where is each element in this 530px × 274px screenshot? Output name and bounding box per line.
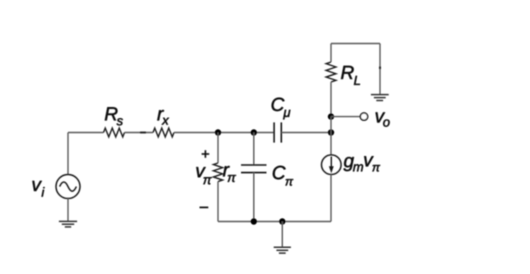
wire: node vo to main wire node	[330, 117, 332, 133]
label rx	[157, 110, 169, 125]
wire: RL bottom lead to node vo	[330, 82, 332, 117]
wire: bottom horizontal	[218, 221, 331, 223]
label vpi	[196, 167, 211, 184]
wire: RL top lead	[330, 44, 332, 63]
wire: right vertical to ground	[379, 44, 381, 95]
current source gm vpi circle	[322, 155, 342, 175]
wire: main wire node to current source	[330, 133, 332, 156]
label gm vpi	[344, 156, 381, 171]
minus sign	[200, 206, 209, 208]
capacitor Cpi plate bottom	[241, 172, 267, 174]
wire: between Rs and rx	[125, 132, 154, 134]
wire: rpi to bottom wire	[217, 182, 219, 222]
node: Cpi bottom junction	[251, 218, 257, 224]
node C2 on main wire	[328, 129, 334, 135]
wire: source to ground left	[67, 199, 69, 222]
resistor rpi	[213, 163, 222, 182]
wire: top horizontal	[331, 43, 380, 45]
source vi sine symbol	[60, 182, 77, 191]
wire: current source to bottom wire	[330, 175, 332, 222]
label Cpi	[273, 166, 293, 186]
capacitor Cpi plate top	[241, 164, 267, 166]
label Cmu	[272, 98, 291, 120]
ground (bottom middle)	[274, 247, 291, 253]
wire: vo stub	[331, 116, 360, 118]
wire: node C down to Cpi	[253, 133, 255, 166]
ground (left, below vi)	[59, 221, 77, 227]
label Rs	[105, 107, 123, 125]
wire: Cpi to bottom wire	[253, 173, 255, 222]
capacitor Cmu plate right	[280, 122, 282, 142]
wire: node B down to rpi	[217, 133, 219, 164]
label vo	[376, 112, 390, 126]
node: ground junction	[279, 218, 285, 224]
resistor Rs	[104, 128, 125, 137]
source vi circle	[56, 175, 80, 199]
capacitor Cmu plate left	[273, 122, 275, 142]
label vi	[32, 181, 44, 197]
wire: ground stem bottom middle	[281, 222, 283, 248]
node C (Cpi top)	[251, 129, 257, 135]
wire: dark dash joint between Rs and rx	[140, 132, 146, 134]
current source arrow	[330, 157, 332, 167]
wire: left vertical from main wire to source	[67, 133, 69, 175]
resistor RL	[326, 62, 336, 82]
label rpi	[223, 166, 236, 182]
ground (top right)	[371, 95, 389, 101]
plus sign	[202, 150, 210, 158]
node vo junction	[328, 113, 334, 119]
label RL	[341, 66, 360, 85]
node B	[215, 129, 221, 135]
terminal vo open circle	[360, 113, 367, 120]
resistor rx	[153, 128, 174, 137]
wire: main horizontal left segment to Rs	[68, 132, 104, 134]
wire joint tick on right vertical	[379, 67, 381, 70]
wire: Cmu to node C	[281, 132, 331, 134]
wire: rx to node B	[174, 132, 274, 134]
